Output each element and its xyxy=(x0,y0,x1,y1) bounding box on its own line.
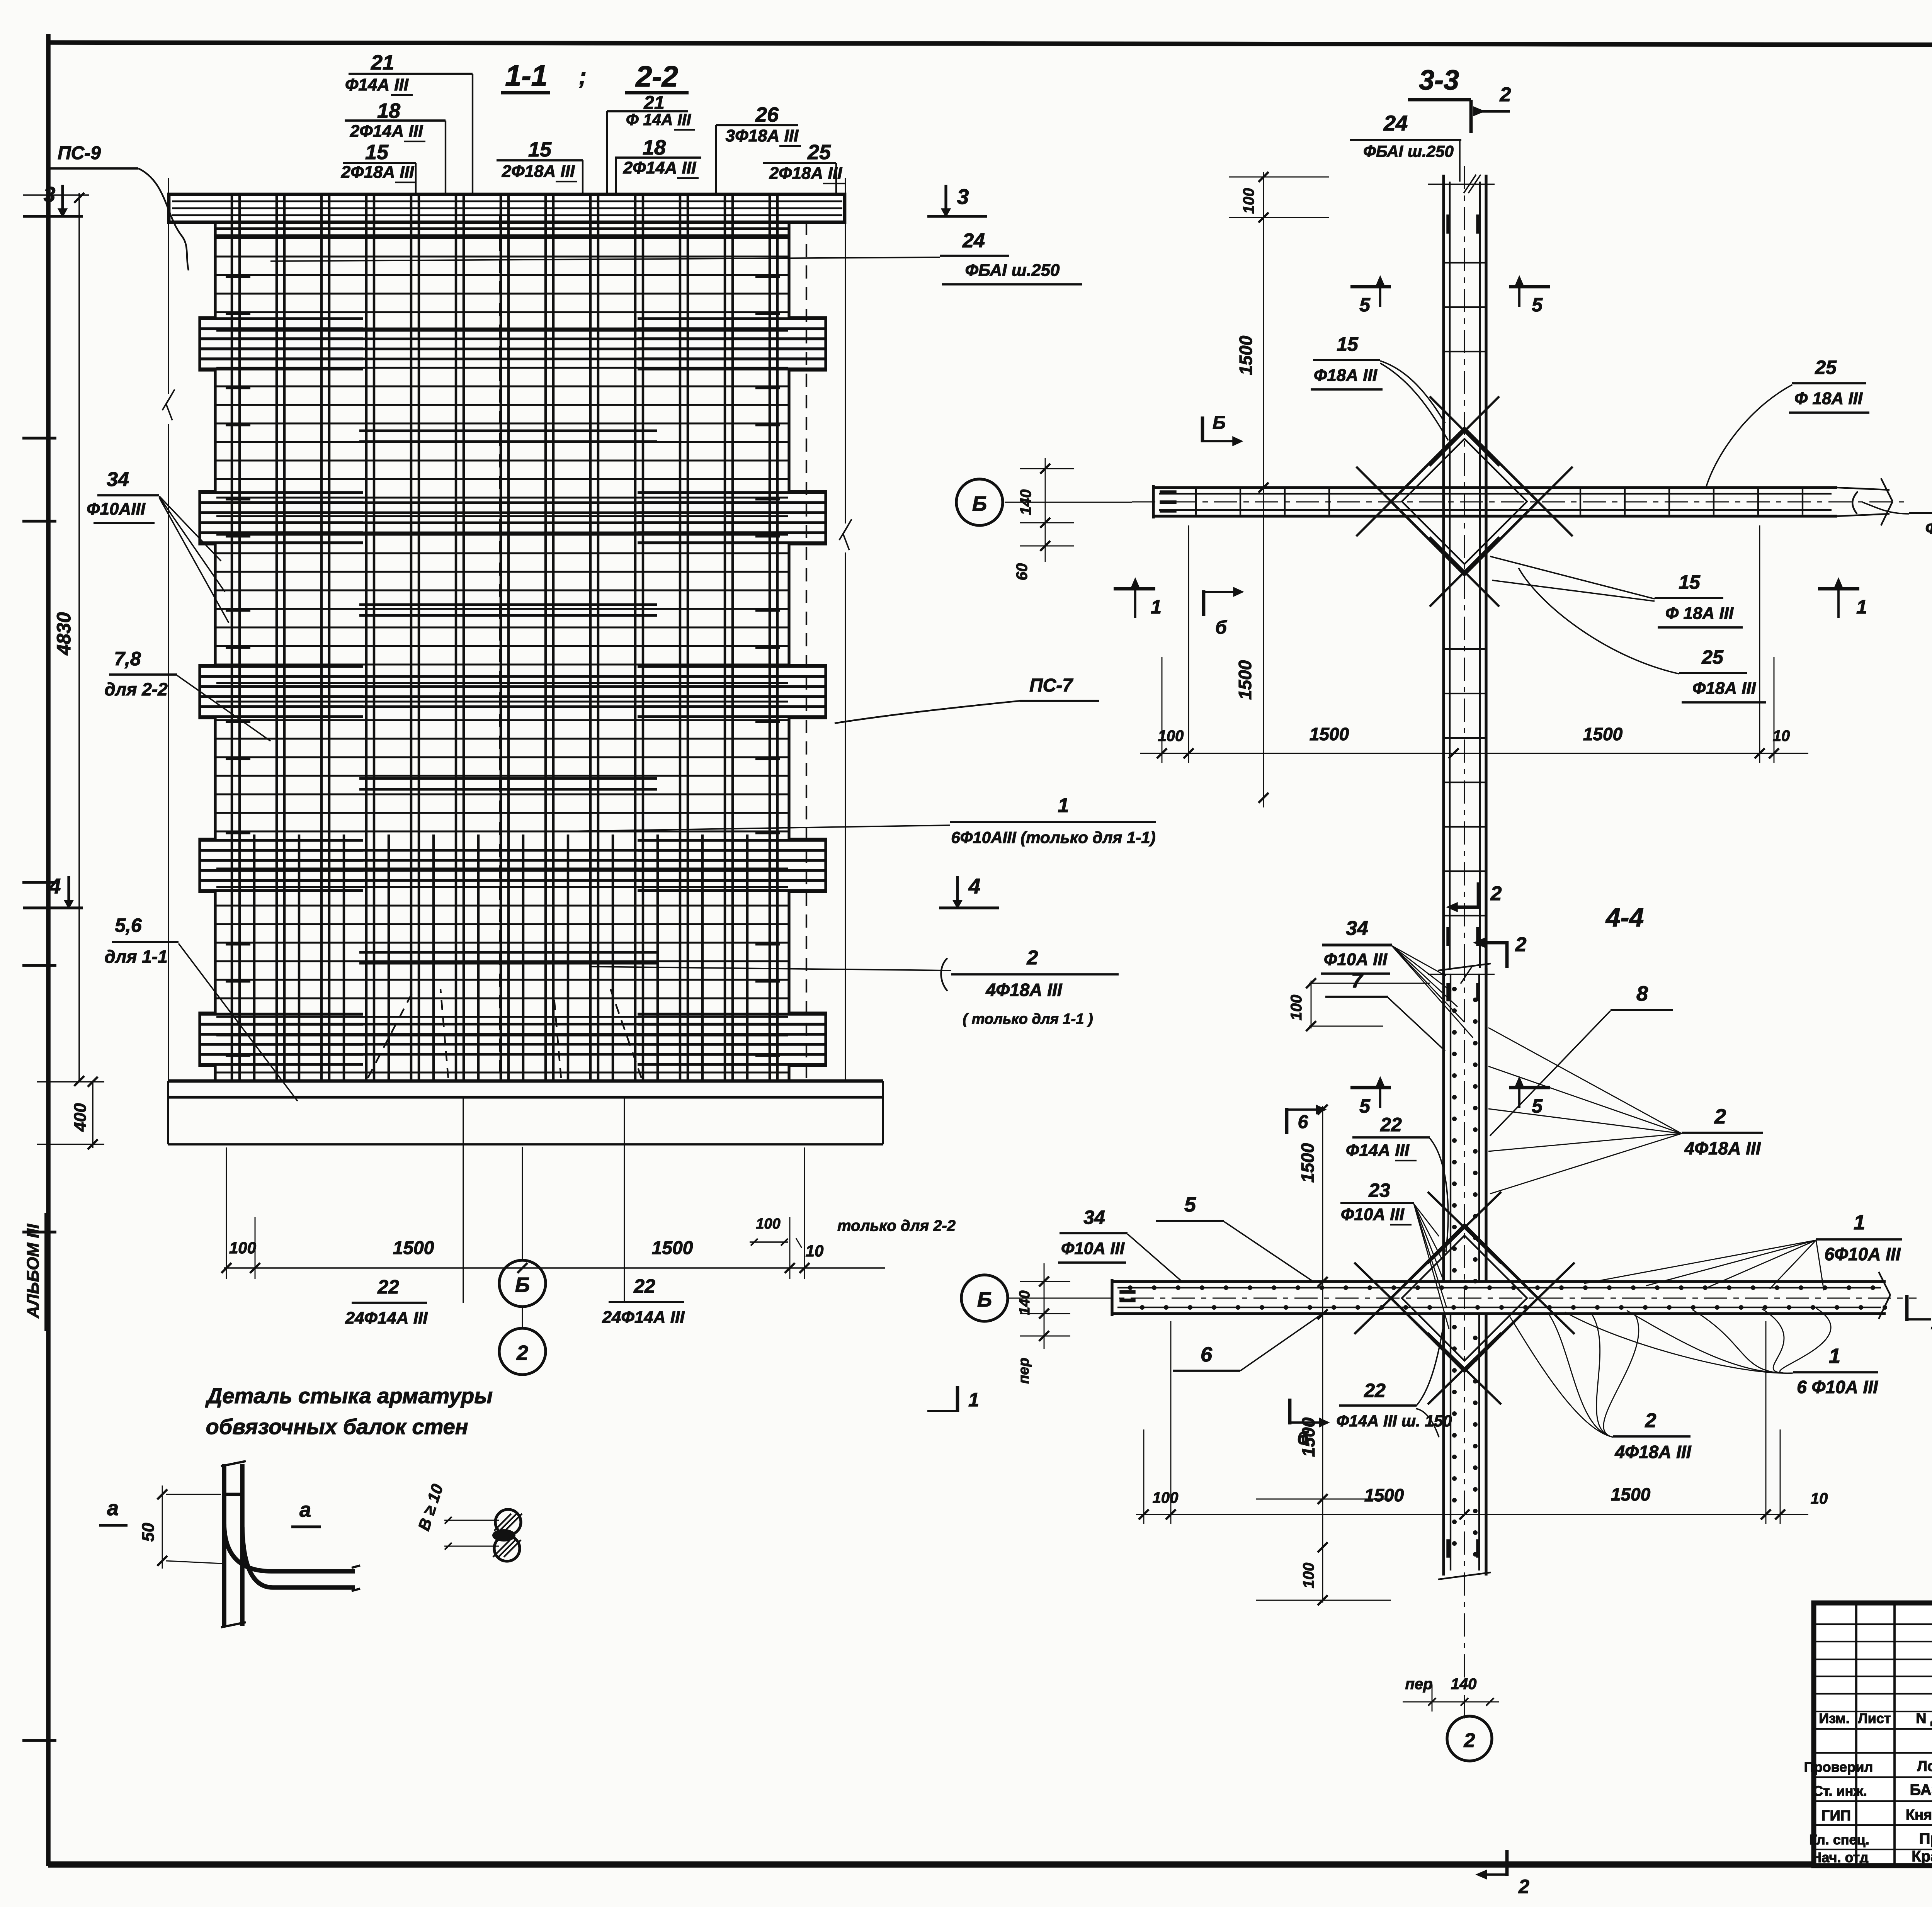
axis bubble B left of 4-4 xyxy=(961,1275,1008,1321)
svg-text:1: 1 xyxy=(968,1389,979,1411)
svg-text:22: 22 xyxy=(633,1275,655,1297)
leader PS-9 wavy xyxy=(138,168,189,270)
leader fan 34 xyxy=(1392,946,1446,976)
svg-text:Ф18А III: Ф18А III xyxy=(1692,679,1756,698)
leader 25 xyxy=(835,163,837,194)
leader fan 2 xyxy=(1488,1028,1682,1134)
svg-text:140: 140 xyxy=(1451,1676,1477,1693)
3-3 centrelines xyxy=(1464,166,1465,982)
3-3 beam right thin continuation xyxy=(1837,488,1889,490)
4-4 lower column member xyxy=(1442,1314,1445,1576)
leader from small callout 21 xyxy=(606,111,608,194)
leader 24 to column xyxy=(1459,140,1461,182)
svg-text:24Ф14А III: 24Ф14А III xyxy=(602,1308,685,1327)
cut mark 2 bottom of 3-3 xyxy=(1453,882,1478,907)
svg-text:4Ф18А III: 4Ф18А III xyxy=(985,980,1062,1000)
svg-text:Ф14А III: Ф14А III xyxy=(345,75,409,94)
svg-text:1-1: 1-1 xyxy=(505,59,548,92)
detail dim 50 xyxy=(162,1485,163,1569)
title block vertical dividers left part xyxy=(1855,1603,1857,1866)
svg-text:10: 10 xyxy=(1811,1490,1828,1507)
3-3 left height dims 140 60 xyxy=(1045,458,1046,562)
svg-text:2Ф14А III: 2Ф14А III xyxy=(350,122,423,141)
4-4 vertical dim chain right side xyxy=(1322,1106,1323,1603)
3-3 column stirrup ticks xyxy=(1444,262,1486,263)
svg-text:1: 1 xyxy=(1151,596,1162,618)
svg-text:2: 2 xyxy=(1714,1105,1726,1128)
svg-text:6Ф10А III: 6Ф10А III xyxy=(1824,1244,1901,1264)
cut mark b lower left of 3-3 xyxy=(1202,590,1206,616)
leader from callout 18 xyxy=(445,121,446,194)
svg-text:5: 5 xyxy=(1184,1193,1196,1216)
dashed construction joints in panel xyxy=(499,216,501,1078)
4-4 haunch diamond outer xyxy=(1391,1225,1538,1372)
svg-text:2: 2 xyxy=(1027,947,1038,969)
mid-span bar bundles xyxy=(359,430,657,432)
left dimension 4830 for panel xyxy=(78,193,80,1082)
detail vertical bar xyxy=(222,1464,226,1626)
left dimension 400 slab xyxy=(92,1081,94,1148)
svg-text:1: 1 xyxy=(1931,1313,1932,1333)
svg-text:1500: 1500 xyxy=(1583,724,1623,744)
leader 34 beam xyxy=(1128,1234,1182,1282)
svg-text:Лоуцкер: Лоуцкер xyxy=(1917,1758,1932,1774)
svg-text:5: 5 xyxy=(1359,294,1371,316)
svg-text:БАЗАНОВ: БАЗАНОВ xyxy=(1910,1781,1932,1798)
leaders 34 F10AIII xyxy=(159,496,221,561)
svg-text:1: 1 xyxy=(1854,1211,1865,1234)
svg-text:2: 2 xyxy=(1464,1729,1475,1752)
svg-text:25: 25 xyxy=(1701,646,1724,668)
svg-text:1: 1 xyxy=(1829,1344,1840,1368)
leader line across mesh for pos.24 xyxy=(270,257,940,261)
3-3 haunch diamond outer xyxy=(1391,428,1538,575)
cut mark 2 bottom far xyxy=(1505,1850,1509,1876)
svg-text:5,6: 5,6 xyxy=(115,914,142,936)
svg-text:7,8: 7,8 xyxy=(114,648,141,670)
svg-text:1: 1 xyxy=(1856,596,1867,618)
leaders 15 upper xyxy=(1380,361,1445,423)
leader 22 right to slab xyxy=(624,1098,625,1302)
leaders 15 lower xyxy=(1490,556,1655,599)
4-4 centrelines xyxy=(1464,958,1465,1720)
title block outer frame xyxy=(1814,1603,1932,1866)
svg-text:22: 22 xyxy=(1364,1380,1386,1401)
leader 5 xyxy=(1224,1222,1314,1282)
section boundary line right of panel xyxy=(845,178,846,523)
3-3 haunch diamond inner xyxy=(1402,439,1527,564)
svg-text:1500: 1500 xyxy=(393,1238,434,1258)
4-4 bottom dim chain 100 1500 1500 10 xyxy=(1136,1514,1808,1515)
pilaster band bar bundles xyxy=(201,317,363,320)
svg-text:4: 4 xyxy=(968,874,981,898)
svg-text:25: 25 xyxy=(807,141,831,164)
leader 24 right xyxy=(1862,502,1909,514)
svg-text:ФБАI ш.250: ФБАI ш.250 xyxy=(965,261,1060,280)
svg-text:7: 7 xyxy=(1351,969,1364,992)
3-3 beam anchor dashes left end xyxy=(1160,491,1176,494)
svg-text:140: 140 xyxy=(1017,489,1034,515)
4-4 lower column break line xyxy=(1438,1572,1491,1579)
cut mark 2 above 4-4 xyxy=(1480,943,1507,968)
panel bottom dimension chain 100 1500 1500 10 xyxy=(224,1267,885,1269)
svg-text:а: а xyxy=(107,1497,119,1520)
svg-text:Ф10АIII: Ф10АIII xyxy=(87,500,146,518)
svg-text:18: 18 xyxy=(643,136,666,159)
svg-text:пер: пер xyxy=(1405,1676,1432,1693)
4-4 haunch diamond inner xyxy=(1402,1236,1527,1361)
cut mark 5 right of 4-4 column xyxy=(1509,1086,1550,1089)
leader from callout 15 xyxy=(415,163,417,194)
anchor stub dashes at wall faces xyxy=(226,275,250,278)
svg-text:6Ф10АIII (только для 1-1): 6Ф10АIII (только для 1-1) xyxy=(951,828,1155,846)
axis bubble 2 under 4-4 xyxy=(1447,1716,1492,1761)
svg-text:Б: Б xyxy=(1213,413,1226,433)
svg-text:;: ; xyxy=(579,63,587,89)
svg-text:2: 2 xyxy=(1518,1876,1529,1897)
svg-text:5: 5 xyxy=(1359,1095,1371,1117)
svg-text:Проверил: Проверил xyxy=(1804,1759,1873,1775)
cut mark 1 left end of 4-4 beam xyxy=(956,1386,959,1412)
leader 25 lower xyxy=(1519,568,1679,674)
svg-text:Деталь стыка арматуры: Деталь стыка арматуры xyxy=(205,1384,493,1408)
svg-text:15: 15 xyxy=(365,141,389,164)
svg-text:для 2-2: для 2-2 xyxy=(104,679,168,699)
svg-text:1500: 1500 xyxy=(1310,724,1349,744)
svg-text:15: 15 xyxy=(1679,571,1701,593)
3-3 beam stirrup ticks xyxy=(1195,489,1197,515)
svg-text:34: 34 xyxy=(1346,917,1368,940)
leader 5,6 xyxy=(179,943,298,1101)
svg-text:6 Ф10А III: 6 Ф10А III xyxy=(1797,1377,1878,1397)
svg-text:34: 34 xyxy=(1083,1207,1105,1228)
leaders 22 below xyxy=(1416,1329,1443,1406)
svg-text:1500: 1500 xyxy=(1236,335,1256,375)
top ring beam of wall panel xyxy=(169,194,845,222)
svg-text:100: 100 xyxy=(756,1216,780,1232)
svg-text:1500: 1500 xyxy=(1235,660,1255,700)
axis bubble B left of 3-3 xyxy=(956,479,1003,525)
svg-text:N докум.: N докум. xyxy=(1916,1710,1932,1727)
4-4 upper column rebar dots xyxy=(1452,987,1457,991)
svg-text:а: а xyxy=(299,1498,311,1521)
leader pos.2 across mesh xyxy=(591,967,951,970)
svg-text:3-3: 3-3 xyxy=(1419,65,1459,96)
svg-text:34: 34 xyxy=(107,468,129,491)
svg-text:ПС-9: ПС-9 xyxy=(58,143,101,163)
3-3 vertical dim chain 100 1500 xyxy=(1263,172,1264,807)
detail bar splice circles xyxy=(492,1509,522,1561)
svg-text:15: 15 xyxy=(528,138,552,161)
leader 6 xyxy=(1240,1314,1321,1371)
svg-text:100: 100 xyxy=(1288,995,1305,1021)
svg-text:Нач. отд: Нач. отд xyxy=(1811,1849,1868,1865)
svg-text:2Ф18А III: 2Ф18А III xyxy=(769,164,842,183)
svg-text:Ф10А III: Ф10А III xyxy=(1341,1205,1405,1224)
4-4 upper column member xyxy=(1442,968,1445,1282)
svg-text:1500: 1500 xyxy=(1298,1143,1318,1183)
svg-text:3: 3 xyxy=(957,185,969,209)
svg-text:6: 6 xyxy=(1298,1112,1308,1132)
svg-text:Пронин: Пронин xyxy=(1919,1830,1932,1847)
svg-text:Б: Б xyxy=(977,1288,992,1311)
svg-text:Ф 18А III: Ф 18А III xyxy=(1665,604,1734,623)
svg-text:2: 2 xyxy=(1500,83,1511,106)
wall panel horizontal mesh bars xyxy=(216,237,788,239)
svg-text:18: 18 xyxy=(377,99,400,122)
leader 8 xyxy=(1490,1011,1611,1136)
svg-text:22: 22 xyxy=(377,1276,399,1298)
svg-text:ФБАI ш.250: ФБАI ш.250 xyxy=(1925,519,1932,538)
svg-text:15: 15 xyxy=(1337,333,1359,355)
left margin fold ticks xyxy=(22,437,56,439)
svg-text:26: 26 xyxy=(755,103,779,126)
wall panel left notched edge xyxy=(200,222,215,1081)
svg-text:Княгиничев: Княгиничев xyxy=(1906,1807,1932,1823)
svg-text:Изм.: Изм. xyxy=(1819,1710,1850,1726)
svg-text:Б: Б xyxy=(515,1273,530,1297)
svg-text:5: 5 xyxy=(1532,1095,1543,1117)
svg-text:60: 60 xyxy=(1014,563,1031,581)
4-4 upper column anchor dashes xyxy=(1447,983,1450,1001)
svg-text:4830: 4830 xyxy=(53,612,75,655)
4-4 left dims 140 per xyxy=(1044,1263,1045,1349)
axis bubble B under panel xyxy=(499,1260,546,1307)
svg-text:24: 24 xyxy=(962,229,985,252)
svg-text:2: 2 xyxy=(1490,882,1502,905)
svg-text:2Ф14А III: 2Ф14А III xyxy=(623,158,696,177)
3-3 cross ties at diamond vertices xyxy=(1430,396,1499,466)
3-3 column anchor dashes top xyxy=(1447,215,1450,233)
svg-text:1500: 1500 xyxy=(1298,1417,1318,1457)
svg-text:6: 6 xyxy=(1201,1343,1213,1366)
svg-text:только для 2-2: только для 2-2 xyxy=(837,1217,956,1234)
title block left row lines xyxy=(1814,1623,1932,1625)
cut mark 1 below left end of 3-3 beam xyxy=(1114,587,1155,591)
svg-text:10: 10 xyxy=(806,1242,824,1260)
extension lines for bottom chain xyxy=(226,1147,227,1279)
svg-text:25: 25 xyxy=(1815,357,1837,378)
svg-text:3Ф18А III: 3Ф18А III xyxy=(726,126,799,145)
svg-text:23: 23 xyxy=(1368,1180,1390,1201)
svg-text:Красавин: Красавин xyxy=(1912,1848,1932,1865)
svg-text:Ф 18А III: Ф 18А III xyxy=(1794,389,1863,408)
svg-text:1500: 1500 xyxy=(1364,1485,1404,1505)
svg-text:1: 1 xyxy=(1058,794,1069,817)
3-3 column vertical member xyxy=(1442,175,1445,974)
svg-text:2-2: 2-2 xyxy=(635,60,678,93)
svg-text:4Ф18А III: 4Ф18А III xyxy=(1614,1442,1691,1462)
svg-text:Ф10А III: Ф10А III xyxy=(1061,1239,1125,1258)
section boundary line left of panel xyxy=(168,178,169,394)
svg-text:Ст. инж.: Ст. инж. xyxy=(1813,1783,1867,1799)
leader 25 upper xyxy=(1706,385,1792,488)
svg-text:24: 24 xyxy=(1383,111,1408,135)
4-4 beam rebar dots xyxy=(1128,1285,1133,1290)
svg-text:Ф10А III: Ф10А III xyxy=(1324,950,1388,969)
svg-text:2Ф18А III: 2Ф18А III xyxy=(502,162,575,181)
svg-text:Гл. спец.: Гл. спец. xyxy=(1809,1832,1869,1848)
leader PS-7 xyxy=(835,701,1020,723)
leader fan 1 lower xyxy=(1565,1312,1793,1373)
cut mark 6 lower left of 4-4 xyxy=(1288,1399,1292,1424)
cut mark 2 top of 3-3 xyxy=(1469,100,1473,133)
cut mark 5 left of 3-3 column xyxy=(1350,285,1391,289)
svg-text:1500: 1500 xyxy=(652,1238,693,1258)
leader 26 xyxy=(715,125,717,194)
svg-text:10: 10 xyxy=(1773,727,1790,744)
cut mark B upper left of 3-3 xyxy=(1201,416,1204,442)
4-4 lower column anchor dashes xyxy=(1447,1540,1450,1557)
leader fan 2 lower xyxy=(1509,1315,1613,1437)
svg-text:2: 2 xyxy=(516,1341,528,1365)
detail L-shaped bar xyxy=(224,1524,355,1571)
axis bubble 2 under panel xyxy=(499,1328,546,1375)
detail joint line xyxy=(224,1493,242,1496)
svg-text:21: 21 xyxy=(371,51,394,74)
3-3 column bottom break line xyxy=(1428,974,1495,975)
leader 7,8 xyxy=(177,675,270,741)
3-3 column anchor dashes bottom xyxy=(1447,927,1450,946)
svg-text:100: 100 xyxy=(1153,1489,1179,1506)
4-4 beam right break xyxy=(1879,1272,1890,1295)
4-4 cross ties at diamond vertices xyxy=(1428,1192,1501,1263)
sheet border frame xyxy=(46,34,51,1866)
svg-text:АЛЬБОМ III: АЛЬБОМ III xyxy=(24,1224,43,1319)
svg-text:50: 50 xyxy=(139,1523,158,1542)
svg-text:5: 5 xyxy=(1532,294,1543,316)
cut mark 6 upper left of 4-4 xyxy=(1285,1108,1289,1134)
leader 22 xyxy=(1430,1138,1448,1252)
axis line under panel xyxy=(522,1147,523,1260)
4-4 beam anchor dashes left end xyxy=(1120,1290,1135,1293)
4-4 dim 100 upper xyxy=(1311,981,1312,1028)
foundation slab under wall xyxy=(168,1079,883,1083)
3-3 beam horizontal member xyxy=(1153,486,1837,489)
leader pos.1 across mesh xyxy=(560,825,950,831)
svg-text:2Ф18А III: 2Ф18А III xyxy=(341,163,414,182)
svg-text:1500: 1500 xyxy=(1611,1484,1651,1504)
leader centre 18 xyxy=(615,158,617,194)
wall panel lower dense vertical bars xyxy=(253,835,256,1080)
svg-text:б: б xyxy=(1215,617,1227,638)
wall panel right notched edge xyxy=(789,222,826,1081)
svg-text:ГИП: ГИП xyxy=(1821,1808,1851,1824)
svg-text:Б: Б xyxy=(972,492,987,515)
svg-text:140: 140 xyxy=(1017,1290,1033,1315)
svg-text:4-4: 4-4 xyxy=(1605,903,1644,932)
leader 7 xyxy=(1388,998,1445,1051)
leader centre 15 xyxy=(582,160,583,194)
svg-text:100: 100 xyxy=(1240,188,1257,214)
svg-text:Ф18А III: Ф18А III xyxy=(1314,366,1378,385)
svg-text:24Ф14А III: 24Ф14А III xyxy=(345,1309,428,1327)
4-4 lower column rebar dots xyxy=(1452,1325,1457,1329)
svg-text:4Ф18А III: 4Ф18А III xyxy=(1684,1138,1761,1158)
svg-text:22: 22 xyxy=(1380,1114,1402,1135)
4-4 beam horizontal member xyxy=(1112,1280,1886,1283)
cut mark 5 left of 4-4 column xyxy=(1350,1086,1391,1089)
svg-text:3: 3 xyxy=(44,182,56,206)
svg-text:( только для 1-1 ): ( только для 1-1 ) xyxy=(963,1011,1093,1027)
detail splice dims xyxy=(444,1520,499,1521)
cut mark 5 right of 3-3 column xyxy=(1509,285,1550,289)
3-3 column top break line xyxy=(1428,184,1495,185)
svg-text:Ф14А III: Ф14А III xyxy=(1346,1141,1410,1160)
wall panel under-beam distribution bars xyxy=(216,227,788,230)
svg-text:2: 2 xyxy=(1515,933,1527,956)
4-4 upper column break xyxy=(1438,964,1491,970)
cut mark 1 below right end of 3-3 beam xyxy=(1818,587,1859,591)
leader from callout 21 xyxy=(472,74,473,194)
svg-text:4: 4 xyxy=(49,874,61,898)
wall panel vertical bar pairs xyxy=(231,196,233,1080)
svg-text:2: 2 xyxy=(1645,1409,1656,1432)
leader 22 left to slab xyxy=(463,1098,464,1303)
svg-text:обвязочных балок стен: обвязочных балок стен xyxy=(206,1414,468,1439)
svg-text:ПС-7: ПС-7 xyxy=(1029,675,1073,696)
leader fan 1 xyxy=(1584,1240,1816,1283)
svg-text:400: 400 xyxy=(71,1103,90,1132)
leader fan 23 xyxy=(1414,1204,1439,1236)
svg-text:пер: пер xyxy=(1016,1358,1032,1384)
svg-text:ФБАI ш.250: ФБАI ш.250 xyxy=(1363,142,1454,160)
svg-text:Ф 14А III: Ф 14А III xyxy=(626,110,692,129)
svg-text:Лист: Лист xyxy=(1858,1710,1891,1726)
svg-text:8: 8 xyxy=(1636,982,1648,1005)
svg-text:100: 100 xyxy=(229,1239,256,1257)
3-3 bottom dim chain 100 1500 1500 10 xyxy=(1140,753,1808,754)
svg-text:для 1-1: для 1-1 xyxy=(104,947,167,967)
svg-text:100: 100 xyxy=(1300,1563,1317,1589)
